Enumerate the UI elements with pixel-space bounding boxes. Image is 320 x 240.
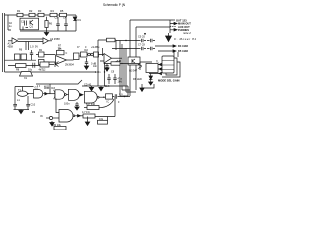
svg-text:IC2: IC2 — [84, 49, 89, 52]
svg-text:16V: 16V — [118, 81, 123, 84]
svg-text:IN: IN — [40, 115, 43, 118]
svg-text:4558: 4558 — [8, 45, 14, 48]
svg-text:R2: R2 — [29, 9, 33, 13]
svg-text:+9 dBu: +9 dBu — [91, 45, 100, 49]
svg-text:C5 C6: C5 C6 — [138, 36, 145, 39]
svg-text:4.7 1%: 4.7 1% — [82, 111, 91, 114]
svg-text:D4 4148: D4 4148 — [178, 44, 188, 48]
svg-text:2N3904: 2N3904 — [65, 64, 74, 67]
svg-text:R1: R1 — [17, 9, 21, 13]
svg-text:A2 4558: A2 4558 — [50, 37, 60, 41]
svg-text:+6dB: +6dB — [116, 60, 122, 63]
svg-text:note 2: note 2 — [183, 31, 191, 35]
svg-text:D1: D1 — [78, 18, 82, 22]
svg-text:D6 LED: D6 LED — [133, 78, 142, 81]
svg-text:C: C — [66, 52, 68, 55]
svg-text:10n: 10n — [93, 65, 98, 68]
svg-text:R3: R3 — [38, 9, 42, 13]
svg-text:4011: 4011 — [44, 87, 50, 90]
svg-text:100n: 100n — [95, 71, 101, 74]
svg-text:MODE SEL GAIN: MODE SEL GAIN — [158, 79, 180, 83]
svg-text:C. Moser 81: C. Moser 81 — [174, 37, 196, 41]
svg-text:R4: R4 — [51, 9, 55, 13]
svg-text:5V: 5V — [35, 46, 38, 49]
svg-text:C10: C10 — [31, 104, 36, 107]
svg-text:1 n: 1 n — [119, 93, 123, 96]
svg-text:R5: R5 — [60, 9, 64, 13]
svg-text:D5 4148: D5 4148 — [178, 49, 188, 53]
svg-text:Q3 547: Q3 547 — [129, 70, 138, 73]
svg-text:IC: IC — [107, 101, 110, 104]
svg-text:10u: 10u — [28, 69, 33, 72]
svg-text:Schematic P (N: Schematic P (N — [103, 3, 126, 7]
svg-text:C7 C8: C7 C8 — [138, 44, 145, 47]
svg-text:CD 40: CD 40 — [84, 84, 92, 87]
svg-text:100n: 100n — [64, 103, 70, 106]
svg-text:CLK: CLK — [105, 85, 110, 88]
svg-text:1.0: 1.0 — [30, 45, 34, 49]
